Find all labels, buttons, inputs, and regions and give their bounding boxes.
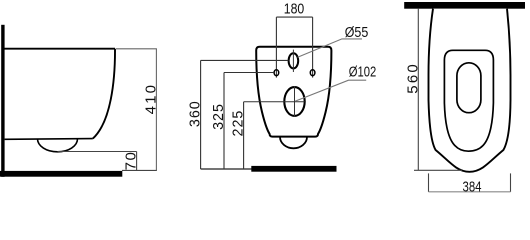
svg-text:Ø102: Ø102 [349, 64, 377, 81]
extension line pan top level [116, 48, 157, 50]
WC pan bottom line (side view) [5, 138, 93, 141]
extension line 360 to inlet center [201, 59, 289, 61]
svg-text:360: 360 [187, 100, 203, 127]
outlet center line vertical [294, 86, 296, 117]
bowl bottom bump (front view) [280, 137, 307, 148]
floor connector line (front view) [201, 168, 252, 170]
WC outlet bulge (side view) [38, 139, 78, 152]
dimension line 360 [200, 60, 202, 169]
extension line 384 right [510, 173, 512, 192]
fixing hole right (front view) [310, 70, 315, 76]
extension line floor level (side view) [122, 169, 157, 171]
bowl opening capsule (top view) [457, 63, 481, 113]
svg-text:70: 70 [122, 151, 139, 171]
extension line 384 left [428, 173, 430, 192]
WC pan front curve (side view) [93, 49, 115, 139]
dimension line 410 [155, 49, 157, 171]
floor bar (front view) [251, 166, 336, 172]
extension line bowl front (top view) [414, 169, 462, 171]
extension line at pan lowest point [58, 151, 137, 153]
WC pan top line (side view) [3, 48, 115, 50]
floor (side view) [0, 171, 122, 177]
WC rim inner contour (top view) [444, 50, 493, 151]
extension line 325 to fixing hole [224, 72, 274, 74]
svg-text:560: 560 [404, 62, 421, 94]
extension line 225 to outlet center [244, 101, 305, 103]
inlet center line vertical [292, 50, 294, 72]
wall (side view) [1, 25, 4, 177]
dimension line 560 [417, 9, 419, 171]
dimension line 70 [136, 152, 138, 171]
leader line O102 [295, 80, 366, 101]
WC bowl outline (front view) [256, 47, 331, 137]
dimension line 225 [243, 102, 245, 169]
svg-text:325: 325 [211, 103, 227, 130]
svg-text:Ø55: Ø55 [345, 24, 369, 41]
svg-text:180: 180 [284, 0, 305, 17]
WC bowl outer outline (top view) [429, 9, 511, 172]
wall (top view) [404, 2, 525, 9]
svg-text:410: 410 [142, 83, 159, 115]
fixing hole left (front view) [274, 70, 279, 76]
svg-text:384: 384 [463, 178, 482, 195]
dimension line 325 [223, 73, 225, 170]
water inlet circle O55 (front view) [289, 53, 299, 68]
dimension 180 line [276, 16, 312, 18]
extension line left hole [275, 17, 277, 78]
svg-text:225: 225 [230, 110, 246, 137]
extension line right hole [312, 17, 314, 78]
outlet circle O102 (front view) [284, 87, 304, 116]
dimension line 384 [429, 191, 511, 193]
leader line O55 [298, 39, 362, 57]
